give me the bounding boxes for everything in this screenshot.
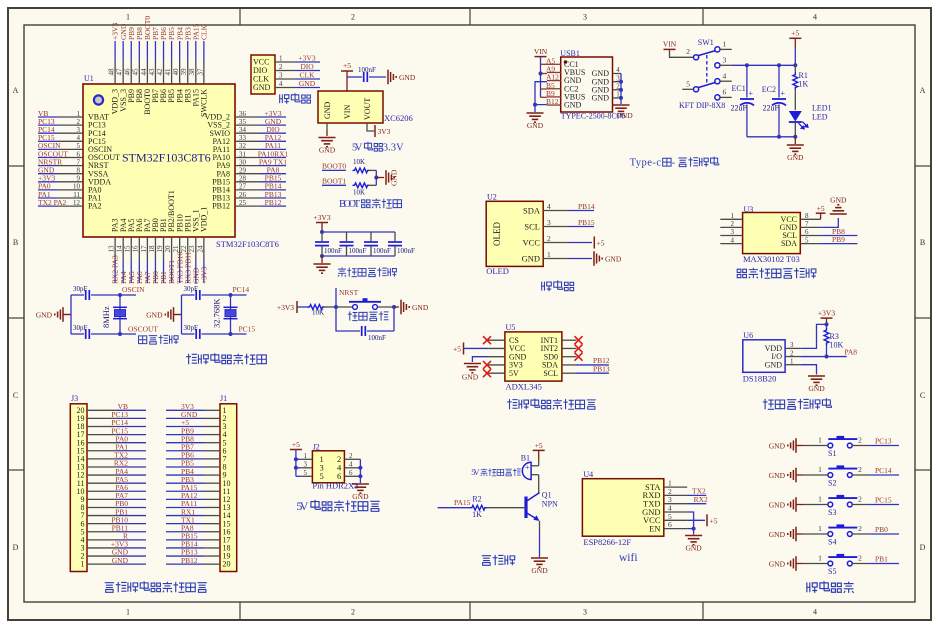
svg-text:9: 9 — [77, 175, 81, 183]
U1 pin 29 PA8 (right) — [235, 173, 260, 175]
sensor U5 ADXL345 body — [505, 332, 562, 381]
svg-text:4: 4 — [731, 236, 735, 244]
ground GND at U6 — [808, 375, 825, 377]
capacitor EC1 22uF — [746, 65, 748, 97]
svg-text:35: 35 — [239, 118, 247, 126]
svg-text:VIN: VIN — [663, 40, 677, 49]
svg-text:J1: J1 — [220, 394, 227, 403]
junction bottom LED — [793, 135, 797, 139]
U1 pin 42 PB6 (top) — [163, 61, 165, 84]
svg-text:+5: +5 — [453, 345, 461, 354]
resistor R3 10K — [824, 328, 829, 345]
U1 pin 13 PA3 (bottom) — [114, 237, 116, 261]
U3 pin 1 (left) — [720, 218, 742, 220]
wire VOUT down — [367, 123, 374, 131]
svg-text:GND: GND — [769, 500, 786, 509]
power +5 port at J2 — [290, 449, 302, 451]
wire VIN rail — [540, 57, 542, 98]
wire left rail — [70, 295, 72, 334]
svg-text:GND: GND — [564, 101, 582, 110]
wire junction to GND — [376, 177, 384, 179]
ground GND at U2 — [601, 258, 603, 260]
svg-text:4: 4 — [723, 71, 727, 80]
svg-text:100nF: 100nF — [397, 247, 415, 255]
wire net +3V3 at U1 pin 36 — [260, 116, 286, 118]
wire net PB8 at U3 — [821, 235, 858, 237]
ground GND at 8MHz crystal — [54, 314, 56, 316]
label xianshiping (display) — [542, 282, 552, 292]
svg-text:4: 4 — [77, 134, 81, 142]
junction R3 top — [825, 322, 829, 326]
U1 pin 44 BOOT0 (top) — [146, 61, 148, 84]
LED LED1 — [789, 111, 802, 122]
svg-text:B12: B12 — [546, 97, 559, 106]
power +5 port at U5 — [463, 343, 465, 355]
svg-text:1: 1 — [731, 212, 735, 220]
svg-text:+3V3: +3V3 — [818, 309, 835, 318]
svg-text:7: 7 — [805, 220, 809, 228]
svg-text:PC14: PC14 — [875, 466, 892, 475]
svg-text:25: 25 — [239, 199, 247, 207]
wifi module U4 ESP8266 body — [582, 479, 663, 537]
svg-text:4: 4 — [279, 80, 283, 88]
wire net PA12 at J1 pin 12 — [166, 498, 204, 500]
wire net PA7 at J3 pin 9 — [117, 498, 146, 500]
svg-text:S1: S1 — [828, 449, 836, 458]
junction IO node — [825, 355, 829, 359]
power +5 port at buzzer — [533, 449, 545, 451]
capacitor 100nF at regulator input — [363, 72, 365, 82]
svg-text:1K: 1K — [799, 80, 809, 89]
node OSCIN — [118, 293, 122, 297]
mcu U1 STM32F103C8T6 body — [83, 84, 235, 237]
svg-text:U4: U4 — [583, 470, 593, 479]
svg-text:SCL: SCL — [524, 221, 540, 231]
svg-text:PC13: PC13 — [875, 437, 892, 446]
svg-text:32: 32 — [239, 142, 247, 150]
wire net +3V3 at J3 pin 3 — [117, 547, 146, 549]
junction EC1 top — [745, 63, 749, 67]
svg-text:OSCOUT: OSCOUT — [128, 325, 158, 334]
U1 pin 48 VDD_3 (top) — [114, 61, 116, 84]
ground GND at button S4 — [787, 533, 789, 535]
svg-text:6: 6 — [77, 150, 81, 158]
wire to GND — [394, 306, 399, 308]
junction VIN-VBUS — [539, 72, 543, 76]
no-connect X at 5V — [483, 369, 491, 377]
wire down to GND — [534, 105, 536, 112]
wire net PB14 at U1 pin 27 — [260, 189, 286, 191]
junction NRST node — [334, 305, 338, 309]
svg-text:3: 3 — [790, 341, 794, 349]
U1 pin 26 PB13 (right) — [235, 197, 260, 199]
svg-text:32.768K: 32.768K — [212, 298, 222, 328]
svg-text:18: 18 — [148, 245, 156, 253]
U1 pin 25 PB12 (right) — [235, 205, 260, 207]
svg-text:13: 13 — [108, 245, 116, 253]
connector J2 body — [312, 451, 344, 483]
svg-text:5V: 5V — [352, 143, 363, 154]
wire GND at U6 — [800, 365, 816, 375]
svg-text:5: 5 — [77, 142, 81, 150]
svg-text:U6: U6 — [743, 331, 753, 340]
svg-text:PB12: PB12 — [265, 198, 282, 207]
svg-text:VCC: VCC — [523, 237, 541, 247]
SW1 blade 5-4 — [698, 82, 715, 87]
wire +3V3 down — [321, 223, 323, 233]
wire net PC13 at U1 pin 2 — [38, 124, 58, 126]
wire VDD to +3V3 — [800, 324, 826, 348]
bottom rail to GND — [747, 136, 795, 138]
junction gnd rail 2 — [619, 88, 623, 92]
svg-text:20: 20 — [164, 245, 172, 253]
junction +5 node — [793, 63, 797, 67]
svg-text:1: 1 — [723, 40, 727, 49]
svg-text:GND: GND — [765, 360, 783, 369]
wire net GND at U1 pin 35 — [260, 124, 286, 126]
svg-text:NRST: NRST — [339, 288, 359, 297]
junction U4 EN-GND — [692, 527, 696, 531]
svg-text:SWCLK: SWCLK — [199, 89, 208, 117]
svg-text:16: 16 — [132, 245, 140, 253]
svg-text:19: 19 — [156, 245, 164, 253]
svg-text:GND: GND — [592, 94, 610, 103]
wire button S2 to net PC14 — [852, 474, 869, 476]
svg-text:Type-c: Type-c — [630, 158, 662, 169]
wire net PA4 at J3 pin 12 — [117, 474, 146, 476]
wire net PB13 at U1 pin 26 — [260, 197, 286, 199]
wire R2 to base — [486, 507, 526, 509]
junction EC2 top — [777, 63, 781, 67]
wire net RX2 at J3 pin 13 — [117, 466, 146, 468]
capacitor 100nF filter 1 — [321, 232, 323, 241]
capacitor 30pF bottom — [71, 333, 84, 335]
U1 pin 17 PA7 (bottom) — [146, 237, 148, 261]
wire net GND at U1 pin 23 — [195, 261, 197, 283]
wire net GND at J3 pin 2 — [117, 555, 146, 557]
wire net +3V3 at download-port pin 1 — [295, 61, 320, 63]
wire net GND at download-port pin 4 — [295, 87, 320, 89]
svg-text:PA15: PA15 — [454, 498, 471, 507]
power +3V3 port at filter caps — [316, 222, 328, 224]
svg-text:GND: GND — [319, 145, 336, 154]
wire net PB7 at J1 pin 6 — [166, 450, 204, 452]
power +3V3 port at U6 — [821, 317, 833, 319]
svg-text:ESP8266-12F: ESP8266-12F — [583, 537, 631, 547]
ground GND above U3 — [830, 213, 847, 215]
wire net PB6 at U1 pin 42 — [163, 41, 165, 61]
wire net PB5 at J1 pin 8 — [166, 466, 204, 468]
U3 pin 4 (left) — [720, 243, 742, 245]
junction J2 pin6 — [358, 474, 362, 478]
svg-text:27: 27 — [239, 183, 247, 191]
ground GND at 32.768K crystal — [164, 314, 166, 316]
svg-text:5V: 5V — [471, 468, 479, 477]
svg-text:6: 6 — [723, 88, 727, 97]
svg-text:10K: 10K — [353, 189, 365, 197]
wire +5 down — [538, 450, 540, 460]
svg-text:Q1: Q1 — [542, 491, 552, 500]
junction GND rail — [533, 103, 537, 107]
svg-text:XC6206: XC6206 — [384, 113, 413, 123]
capacitor 100nF filter 4 — [394, 232, 396, 241]
svg-text:GND: GND — [522, 253, 540, 263]
crystal 8MHz — [119, 295, 121, 334]
svg-text:2: 2 — [77, 118, 81, 126]
wire junction vertical — [375, 170, 377, 185]
svg-text:1K: 1K — [472, 510, 482, 519]
node PC14 — [229, 293, 233, 297]
power +3V3 port at reset — [296, 301, 298, 313]
svg-text:5: 5 — [304, 469, 308, 477]
svg-text:10K: 10K — [830, 341, 844, 350]
wire net PA10RX1 at U1 pin 31 — [260, 157, 286, 159]
ground GND at button S3 — [787, 504, 789, 506]
svg-text:1: 1 — [77, 110, 81, 118]
wire U4 EN junction — [687, 528, 693, 530]
svg-text:30pF: 30pF — [73, 285, 88, 293]
wire net PC15 at J3 pin 17 — [117, 434, 146, 436]
svg-text:2: 2 — [858, 554, 862, 563]
capacitor 100nF filter 3 — [370, 232, 372, 241]
wire GND to button S5 — [796, 563, 803, 565]
wire GND to button S2 — [796, 474, 803, 476]
svg-text:1: 1 — [818, 524, 822, 533]
svg-text:44: 44 — [140, 68, 148, 76]
U1 pin 12 PA2 (left) — [58, 205, 83, 207]
U1 pin 40 PB4 (top) — [179, 61, 181, 84]
no-connect X at CS — [483, 336, 491, 344]
svg-text:2: 2 — [731, 220, 735, 228]
svg-text:5V: 5V — [509, 369, 519, 378]
wire net PB15 at U2 pin 3 — [568, 226, 594, 228]
wire net PC14 at J3 pin 18 — [117, 425, 146, 427]
wire +5 rail at J2 — [295, 450, 297, 477]
wire GND to button S4 — [796, 533, 803, 535]
wire net TX3 PB10 at U1 pin 21 — [179, 261, 181, 283]
svg-text:VIN: VIN — [343, 105, 352, 119]
svg-text:Pin HDR2X3: Pin HDR2X3 — [312, 481, 358, 491]
ground GND at U5 — [464, 363, 481, 365]
capacitor EC2 22uF — [778, 65, 780, 97]
wire net PA8 at J1 pin 16 — [166, 531, 204, 533]
U1 pin 14 PA4 (bottom) — [122, 237, 124, 261]
svg-text:GND: GND — [769, 530, 786, 539]
U1 pin 23 VSS_1 (bottom) — [195, 237, 197, 261]
wire emitter down — [539, 521, 541, 531]
svg-text:GND: GND — [769, 441, 786, 450]
junction BOOT divider — [374, 176, 378, 180]
power +5 port at U4 — [706, 514, 708, 526]
power +5 port at U3 — [816, 212, 826, 214]
svg-text:D: D — [920, 543, 926, 552]
svg-text:41: 41 — [164, 68, 172, 76]
no-connect X at INT1 — [575, 336, 583, 344]
power +5 port at U2 — [593, 237, 595, 249]
wire +5 to VIN — [346, 71, 348, 91]
svg-text:GND: GND — [146, 310, 163, 319]
transistor Q1 NPN — [524, 497, 527, 519]
wire pin3 to +5 rail — [720, 64, 732, 66]
svg-text:PB9: PB9 — [832, 235, 845, 244]
svg-text:3: 3 — [583, 608, 587, 617]
svg-text:21: 21 — [172, 245, 180, 253]
U1 pin 24 VDD_1 (bottom) — [203, 237, 205, 261]
wire net TX2 at U4 pin2 — [687, 494, 706, 496]
svg-text:+: + — [781, 89, 786, 98]
wire net CLK at U1 pin 37 — [203, 41, 205, 61]
junction gnd rail 3 — [619, 80, 623, 84]
U1 pin 22 PB11 (bottom) — [187, 237, 189, 261]
junction J2 pin1 — [294, 457, 298, 461]
svg-text:1: 1 — [304, 452, 308, 460]
wire +3V3 down — [826, 318, 828, 324]
power 3V3 port at regulator output — [374, 125, 376, 137]
wire net +5 at J1 pin 3 — [166, 425, 204, 427]
svg-text:2: 2 — [349, 452, 353, 460]
regulator U7 XC6206 body — [318, 91, 383, 123]
svg-text:VOUT: VOUT — [363, 98, 372, 120]
wire net 3V3 at J1 pin 1 — [166, 409, 204, 411]
svg-text:GND: GND — [112, 556, 129, 565]
wire net GND at J1 pin 2 — [166, 417, 204, 419]
wire net PA5 at U1 pin 15 — [130, 261, 132, 283]
svg-text:EC1: EC1 — [732, 84, 746, 93]
svg-text:C: C — [920, 391, 925, 400]
svg-text:KFT DIP-8X8: KFT DIP-8X8 — [679, 101, 725, 110]
wire net GND at J3 pin 1 — [117, 563, 146, 565]
wire net PB14 at U2 pin 4 — [568, 210, 594, 212]
svg-text:PC14: PC14 — [233, 285, 250, 294]
ground GND right of USB1 — [613, 104, 630, 106]
svg-text:100nF: 100nF — [358, 66, 376, 74]
wire net PC15 at U1 pin 4 — [38, 140, 58, 142]
wire net BOOT0 at U1 pin 44 — [146, 41, 148, 61]
wire net TX2 at J3 pin 14 — [117, 458, 146, 460]
wire net PA0 at J3 pin 16 — [117, 442, 146, 444]
ground GND at J2 — [352, 483, 369, 485]
wire R1 to LED — [794, 89, 796, 110]
svg-text:PA2: PA2 — [88, 202, 102, 211]
wire net PA15 at U1 pin 38 — [195, 41, 197, 61]
wire net PB3 at J1 pin 10 — [166, 482, 204, 484]
svg-text:26: 26 — [239, 191, 247, 199]
svg-text:12: 12 — [73, 199, 81, 207]
U1 pin 32 PA11 (right) — [235, 148, 260, 150]
svg-text:4: 4 — [349, 460, 353, 468]
label danpianji yinjiao waiyin paizhen (MCU pin breakout header) — [105, 583, 114, 593]
svg-text:+5: +5 — [710, 516, 718, 525]
U1 pin 18 PB0 (bottom) — [154, 237, 156, 261]
svg-text:R2: R2 — [472, 495, 481, 504]
U1 pin 47 VSS_3 (top) — [122, 61, 124, 84]
svg-text:8MHz: 8MHz — [101, 306, 111, 328]
wire net GND at U1 pin 47 — [122, 41, 124, 61]
ground GND at BOOT circuit — [393, 177, 395, 179]
wire net PB10 at J3 pin 6 — [117, 523, 146, 525]
capacitor 30pF top — [71, 294, 84, 296]
svg-text:-: - — [672, 158, 676, 169]
wire net DIO at U1 pin 34 — [260, 132, 286, 134]
svg-text:3: 3 — [547, 218, 551, 227]
node OSCOUT — [118, 332, 122, 336]
SW1 pin 6 — [715, 95, 720, 100]
wire U4 VCC to +5 — [687, 519, 705, 521]
wire VCC to +5 — [568, 242, 592, 244]
svg-text:PB15: PB15 — [578, 218, 595, 227]
svg-text:15: 15 — [124, 245, 132, 253]
svg-text:U5: U5 — [506, 323, 516, 332]
wire net PB13 at J1 pin 19 — [166, 555, 204, 557]
wire net PA8 at U1 pin 29 — [260, 173, 286, 175]
wire gnd rail at J2 — [359, 459, 361, 483]
svg-text:31: 31 — [239, 150, 247, 158]
svg-text:5: 5 — [805, 236, 809, 244]
wire net PC14 at U1 pin 3 — [38, 132, 58, 134]
wire net PB9 at U3 — [821, 243, 858, 245]
wire button S1 to net PC13 — [852, 445, 869, 447]
power +5 port at regulator — [341, 70, 353, 72]
svg-text:D: D — [13, 543, 19, 552]
wire BOOT0 — [322, 169, 346, 171]
svg-text:33: 33 — [239, 134, 247, 142]
svg-text:A: A — [13, 86, 19, 95]
svg-text:TYPEC-2500-8CP6: TYPEC-2500-8CP6 — [561, 112, 625, 121]
U1 pin 1 VBAT (left) — [58, 116, 83, 118]
svg-text:PB12: PB12 — [212, 202, 230, 211]
wire net PA4 at U1 pin 14 — [122, 261, 124, 283]
svg-text:BOOT: BOOT — [339, 199, 361, 210]
wire net PB15 at J1 pin 17 — [166, 539, 204, 541]
wire U3 GND — [821, 218, 839, 227]
wire GND to rail — [63, 314, 71, 316]
svg-text:48: 48 — [108, 68, 116, 76]
svg-text:SW1: SW1 — [698, 38, 714, 47]
svg-text:3V3: 3V3 — [378, 127, 391, 136]
svg-text:LED: LED — [812, 113, 828, 122]
svg-text:GND: GND — [462, 373, 479, 382]
svg-text:2: 2 — [858, 524, 862, 533]
svg-text:2: 2 — [279, 63, 283, 71]
U1 pin 35 VSS_2 (right) — [235, 124, 260, 126]
wire net PB8 at J1 pin 5 — [166, 442, 204, 444]
wire net RX3 PB11 at U1 pin 22 — [187, 261, 189, 283]
svg-text:1: 1 — [279, 55, 283, 63]
ground GND under regulator — [319, 137, 336, 139]
wire to GND — [794, 137, 796, 144]
U1 pin 27 PB14 (right) — [235, 189, 260, 191]
wire net PB8 at U1 pin 45 — [138, 41, 140, 61]
junction top rail — [320, 230, 324, 234]
sensor U6 DS18B20 body — [743, 340, 785, 373]
U1 pin 45 PB8 (top) — [138, 61, 140, 84]
svg-text:STM32F103C8T6: STM32F103C8T6 — [216, 239, 279, 249]
SW1 pin 1 — [715, 47, 720, 52]
U1 pin 16 PA6 (bottom) — [138, 237, 140, 261]
svg-text:PB14: PB14 — [578, 202, 595, 211]
svg-text:42: 42 — [156, 68, 164, 76]
buzzer terminals — [531, 465, 539, 467]
label xinlv xueyang chuanganqi (heart rate blood oxygen sensor) — [737, 269, 746, 278]
wire net PA0 at U1 pin 10 — [38, 189, 58, 191]
no-connect X at 3V3 — [483, 361, 491, 369]
svg-text:BOOT1: BOOT1 — [322, 177, 346, 186]
svg-text:20: 20 — [223, 560, 231, 569]
svg-text:38: 38 — [188, 68, 196, 76]
svg-text:22uF: 22uF — [763, 104, 780, 113]
svg-text:4: 4 — [616, 66, 620, 74]
svg-text:45: 45 — [132, 68, 140, 76]
